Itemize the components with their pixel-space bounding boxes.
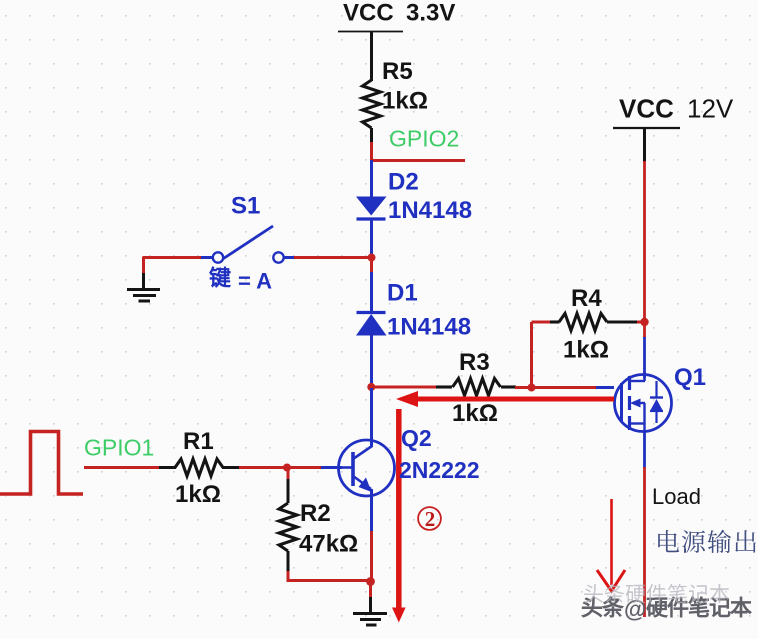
ground — [353, 614, 387, 626]
wire — [239, 466, 288, 469]
label power output 电源输出 — [658, 530, 756, 553]
svg-text:1kΩ: 1kΩ — [452, 400, 498, 427]
svg-text:GPIO1: GPIO1 — [84, 435, 154, 461]
wire — [596, 386, 614, 389]
resistor R4 — [532, 285, 646, 387]
wire — [370, 219, 373, 257]
node R4-drain junction — [640, 318, 648, 326]
wire — [287, 466, 322, 469]
net label GPIO2 — [389, 126, 459, 152]
wire — [321, 466, 342, 469]
wire — [200, 256, 213, 259]
svg-text:GPIO2: GPIO2 — [389, 126, 459, 152]
wire — [370, 272, 373, 313]
wire — [370, 160, 373, 197]
node base-drive junction — [367, 383, 375, 391]
node key junction — [368, 254, 376, 262]
annotation pulse waveform — [0, 432, 83, 495]
diode D2 1N4148 — [356, 169, 472, 225]
svg-text:VCC: VCC — [619, 94, 674, 124]
svg-text:R3: R3 — [459, 349, 490, 376]
watermark ghost — [584, 584, 729, 603]
svg-text:= A: = A — [238, 269, 272, 294]
annotation circled 2 — [418, 507, 441, 531]
resistor R1 — [159, 428, 240, 508]
power VCC 3.3V — [338, 0, 455, 32]
wire — [369, 597, 372, 613]
wire — [370, 335, 373, 388]
ground — [127, 290, 160, 302]
svg-text:47kΩ: 47kΩ — [299, 531, 358, 558]
svg-text:12V: 12V — [687, 94, 734, 124]
node emitter-ground junction — [366, 577, 375, 586]
svg-text:S1: S1 — [231, 193, 260, 220]
svg-text:Q2: Q2 — [401, 425, 432, 451]
resistor R3 — [372, 349, 533, 427]
watermark — [582, 596, 751, 622]
wire — [370, 257, 373, 274]
svg-text:D1: D1 — [387, 280, 418, 307]
svg-text:2: 2 — [425, 507, 436, 531]
wire — [284, 256, 295, 259]
svg-text:R1: R1 — [183, 428, 214, 455]
annotation arrow to ground — [392, 409, 406, 623]
svg-text:Load: Load — [652, 484, 701, 509]
svg-text:D2: D2 — [388, 169, 419, 196]
wire — [287, 571, 290, 582]
wire — [643, 337, 646, 378]
wire — [143, 256, 201, 259]
wire — [369, 581, 372, 598]
switch S1 — [213, 193, 284, 263]
label Load — [652, 484, 701, 509]
node R1-R2-base junction — [283, 464, 291, 472]
power VCC 12V — [613, 94, 734, 129]
wire — [287, 579, 373, 582]
svg-text:1kΩ: 1kΩ — [175, 481, 221, 508]
wire — [370, 31, 373, 57]
svg-text:R5: R5 — [382, 58, 413, 85]
transistor Q1 MOSFET — [615, 364, 707, 432]
svg-text:3.3V: 3.3V — [406, 0, 455, 27]
resistor R2 — [279, 468, 358, 572]
wire — [84, 466, 160, 469]
wire — [532, 386, 598, 389]
transistor Q2 2N2222 — [339, 425, 480, 496]
svg-text:Q1: Q1 — [674, 364, 706, 391]
svg-text:R4: R4 — [571, 285, 602, 312]
svg-text:1kΩ: 1kΩ — [382, 88, 428, 115]
wire — [370, 531, 373, 582]
svg-text:1N4148: 1N4148 — [387, 314, 471, 341]
svg-text:VCC: VCC — [343, 0, 394, 27]
svg-text:1N4148: 1N4148 — [388, 197, 472, 224]
resistor R5 — [363, 57, 428, 143]
label key = A — [210, 267, 273, 294]
wire — [370, 388, 373, 447]
diode D1 1N4148 — [356, 280, 471, 341]
svg-text:@: @ — [624, 596, 646, 622]
svg-text:R2: R2 — [300, 500, 331, 527]
annotation output arrow — [597, 499, 625, 591]
wire — [370, 142, 373, 161]
node R3-R4 junction — [528, 384, 536, 392]
wire — [643, 161, 646, 338]
wire — [142, 257, 145, 275]
wire — [371, 159, 466, 162]
wire — [294, 256, 373, 259]
wire — [142, 273, 145, 289]
wire — [370, 489, 373, 532]
wire — [643, 467, 646, 617]
annotation arrow drive path — [396, 391, 614, 407]
wire — [643, 431, 646, 468]
svg-text:2N2222: 2N2222 — [399, 457, 480, 483]
net label GPIO1 — [84, 435, 154, 461]
wire — [643, 128, 646, 162]
svg-text:1kΩ: 1kΩ — [563, 337, 609, 364]
